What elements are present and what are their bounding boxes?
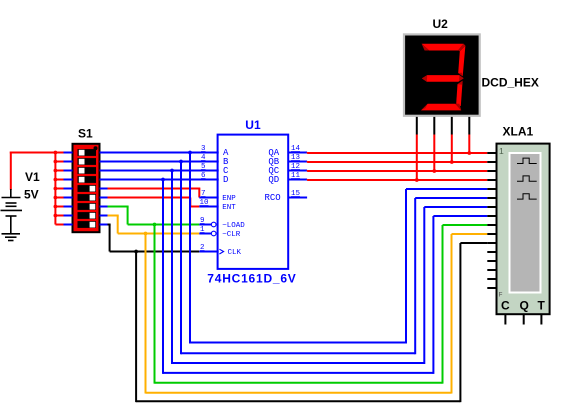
wire net A : switch to U1 pin A (blue) <box>100 152 219 154</box>
svg-text:QD: QD <box>268 175 279 185</box>
IC U1 74HC161 box <box>218 135 289 269</box>
U1 right pin stubs (blue) <box>288 153 307 198</box>
svg-text:1: 1 <box>200 226 205 234</box>
U2 segment top-right <box>458 46 465 77</box>
svg-text:9: 9 <box>200 217 205 225</box>
wire net LOAD : switch row7 to U1 ~LOAD (green) <box>100 207 200 225</box>
svg-text:12: 12 <box>291 163 300 171</box>
junction net B tap <box>179 160 183 164</box>
bus wire 5V vertical (red) <box>55 152 63 225</box>
wire net D to XLA pin8 (blue loop) <box>163 180 487 374</box>
XLA1 waveform icon 3 <box>517 194 537 199</box>
svg-text:5: 5 <box>201 163 206 171</box>
XLA1 input pin stubs 1-16 <box>487 153 496 288</box>
svg-text:1: 1 <box>499 146 504 156</box>
junction QA/U2 <box>467 151 471 155</box>
switch S1 body <box>73 144 100 232</box>
svg-text:5V: 5V <box>24 188 39 202</box>
wire net CLK : switch row9 to U1 CLK (black) <box>100 225 200 252</box>
junction QC/U2 <box>432 169 436 173</box>
wire net QC : U1 pin12 to XLA pin3 (red) <box>307 170 487 173</box>
switch left pin stubs (blue) <box>64 153 73 225</box>
wire net C : switch to U1 pin C (blue) <box>100 170 219 172</box>
junction CLR net <box>144 232 148 236</box>
U2 segment bevel shades (dark red) <box>421 44 465 111</box>
U1 CLK edge triangle <box>219 249 223 254</box>
svg-text:C: C <box>501 299 510 313</box>
svg-text:6: 6 <box>201 172 206 180</box>
svg-text:CLK: CLK <box>228 249 242 257</box>
U1 ~CLR bubble <box>211 231 216 236</box>
svg-text:7: 7 <box>201 190 206 198</box>
junction QD/U2 <box>415 178 419 182</box>
wire net CLK to XLA pin11 (black loop) <box>136 243 487 402</box>
wire net LOAD to XLA pin9 (green loop) <box>155 225 488 384</box>
XLA1 bottom labels C Q T <box>501 299 546 313</box>
svg-text:U2: U2 <box>433 17 449 31</box>
junction CLK net <box>134 250 138 254</box>
svg-text:D: D <box>223 175 228 185</box>
svg-text:XLA1: XLA1 <box>503 124 534 138</box>
7-segment display U2 <box>404 34 480 115</box>
ground <box>2 234 21 241</box>
U1 ~LOAD bubble <box>211 222 216 227</box>
U2 segment bottom <box>421 104 461 111</box>
svg-text:~CLR: ~CLR <box>222 231 241 239</box>
wire net CLR to XLA pin10 (orange loop) <box>146 234 488 394</box>
U1 left pin stubs (blue) <box>199 153 218 252</box>
wire net ENT : switch row6 to U1 ENT (red) <box>100 198 200 207</box>
U2 segment top <box>422 44 464 51</box>
svg-text:74HC161D_6V: 74HC161D_6V <box>207 271 295 285</box>
U2 segment middle <box>422 75 464 82</box>
svg-text:4: 4 <box>201 154 206 162</box>
svg-text:ENT: ENT <box>222 204 236 212</box>
svg-text:U1: U1 <box>245 118 261 132</box>
svg-text:RCO: RCO <box>265 193 281 203</box>
battery V1 <box>1 189 23 234</box>
junction net C tap <box>170 169 174 173</box>
wire net QA : U1 pin14 to XLA pin1 (red) <box>307 152 487 155</box>
svg-text:15: 15 <box>291 190 301 198</box>
wire net B : switch to U1 pin B (blue) <box>100 161 219 163</box>
svg-text:V1: V1 <box>25 170 40 184</box>
wire net A to XLA pin5 (blue loop) <box>190 153 487 344</box>
XLA1 screen panel <box>510 153 541 293</box>
junction QB/U2 <box>450 160 454 164</box>
wire net D : switch to U1 pin D (blue) <box>100 179 219 181</box>
wire net CLR : switch row8 to U1 ~CLR (orange) <box>100 216 200 234</box>
wire net C to XLA pin7 (blue loop) <box>172 171 487 365</box>
XLA1 bottom pins C Q T <box>505 314 541 324</box>
wire V1 positive to bus (red) <box>10 152 64 190</box>
svg-text:DCD_HEX: DCD_HEX <box>482 76 539 90</box>
U1 pin names <box>222 148 280 257</box>
svg-text:3: 3 <box>201 145 206 153</box>
svg-text:S1: S1 <box>78 126 93 140</box>
wire net ENP : switch row5 to U1 ENP (red) <box>100 189 201 198</box>
U2 display pin wires (black stubs then red) <box>417 116 470 181</box>
U1 right pin numbers <box>291 145 301 198</box>
svg-text:T: T <box>538 299 546 313</box>
U1 left pin numbers <box>200 145 210 252</box>
junction dots on 5V bus <box>54 151 58 218</box>
U2 segment bottom-right <box>456 81 462 107</box>
logic analyzer XLA1 box <box>497 144 550 315</box>
junction net D tap <box>161 178 165 182</box>
svg-text:10: 10 <box>200 199 210 207</box>
wire net QB : U1 pin13 to XLA pin2 (red) <box>307 161 487 164</box>
svg-text:11: 11 <box>291 172 301 180</box>
svg-text:14: 14 <box>291 145 301 153</box>
svg-text:13: 13 <box>291 154 301 162</box>
wire net QD : U1 pin11 to XLA pin4 (red) <box>307 179 487 182</box>
svg-text:~LOAD: ~LOAD <box>222 222 245 230</box>
switch S1 positions 1-9 <box>78 149 97 228</box>
XLA1 waveform icon 1 <box>517 158 537 163</box>
svg-text:Q: Q <box>520 299 529 313</box>
junction net A tap <box>188 151 192 155</box>
svg-text:2: 2 <box>200 244 205 252</box>
XLA1 waveform icon 2 <box>517 176 537 181</box>
junction LOAD net <box>153 223 157 227</box>
svg-text:ENP: ENP <box>222 195 236 203</box>
wire net B to XLA pin6 (blue loop) <box>181 162 487 355</box>
